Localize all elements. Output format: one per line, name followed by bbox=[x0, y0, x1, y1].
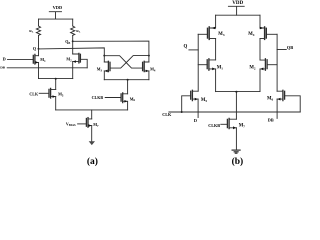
label DB input (a) bbox=[0, 65, 5, 69]
label D (b) bbox=[194, 118, 197, 123]
svg-text:CLKB: CLKB bbox=[208, 123, 220, 128]
svg-text:DB: DB bbox=[268, 117, 274, 122]
transistor M2 (b) mirrored bbox=[249, 59, 267, 71]
svg-text:VDD: VDD bbox=[232, 1, 243, 6]
wire node QB line to cross pair (a) bbox=[73, 41, 149, 56]
wire QB tap (b) bbox=[277, 49, 286, 51]
wire M1 drain to Q (a) bbox=[38, 49, 40, 56]
wire M5 source down (a) bbox=[55, 97, 57, 110]
wire M2 source down (b) bbox=[259, 69, 261, 92]
wire rail3 to M6 drain (a) bbox=[127, 80, 129, 94]
top rail wire (a) bbox=[39, 18, 73, 20]
VDD supply T symbol (b) bbox=[228, 6, 244, 15]
wire M3 source down (a) bbox=[103, 71, 105, 80]
svg-text:M7: M7 bbox=[239, 123, 246, 128]
transistor M1 (b) bbox=[207, 59, 223, 71]
transistor M1 (a) bbox=[33, 54, 46, 64]
transistor M3 (a) mirrored gate right bbox=[97, 61, 110, 72]
source rail M3 M4 (a) bbox=[104, 79, 149, 81]
svg-text:M4: M4 bbox=[248, 32, 255, 37]
svg-text:QB: QB bbox=[287, 45, 293, 50]
transistor M4 (b) PMOS right mirrored bbox=[248, 15, 266, 39]
svg-text:CLK: CLK bbox=[162, 112, 172, 117]
caption (a) bbox=[87, 156, 98, 167]
svg-text:M2: M2 bbox=[249, 66, 256, 71]
wire M1 source down (a) bbox=[38, 62, 40, 78]
svg-text:Q: Q bbox=[183, 45, 187, 50]
tail rail (a) bbox=[56, 109, 128, 111]
svg-text:M1: M1 bbox=[217, 65, 224, 70]
wire M4 source down (a) bbox=[148, 71, 150, 80]
transistor M7 (a) bbox=[86, 118, 99, 129]
wire M1 source down (b) bbox=[215, 69, 217, 92]
svg-text:M3: M3 bbox=[218, 32, 225, 37]
transistor M4 (a) gate left bbox=[143, 61, 156, 72]
wire VBIAS to M7 gate (a) bbox=[78, 123, 87, 125]
svg-text:VDD: VDD bbox=[53, 5, 63, 10]
wire CLKB to M7 gate (b) bbox=[221, 123, 228, 125]
node QB junction dot (a) bbox=[72, 40, 74, 42]
svg-text:CLK: CLK bbox=[29, 91, 39, 96]
transistor M3 (b) PMOS left bbox=[208, 15, 225, 39]
svg-text:M5: M5 bbox=[201, 98, 208, 103]
transistor M5 (b) bbox=[191, 90, 208, 103]
wire DB line (a) bbox=[7, 67, 87, 69]
junction dot rail3 (a) bbox=[127, 79, 129, 81]
svg-text:(b): (b) bbox=[232, 156, 244, 166]
svg-text:CLKB: CLKB bbox=[92, 95, 104, 100]
junction dot rail1 (a) bbox=[55, 78, 57, 80]
resistor RL right (a) bbox=[71, 26, 75, 35]
wire CLK to M5 gate (a) bbox=[39, 92, 49, 94]
VDD supply T symbol (a) bbox=[49, 12, 61, 19]
transistor M7 (b) bbox=[227, 118, 245, 129]
caption (b) bbox=[232, 156, 244, 167]
label Q (a) bbox=[33, 46, 37, 51]
wire M5 source to D stub (b) bbox=[197, 99, 199, 117]
transistor M5 (a) bbox=[49, 88, 64, 98]
svg-text:D: D bbox=[194, 118, 197, 123]
label D input (a) bbox=[3, 57, 6, 62]
wire node Q line to cross pair (a) bbox=[39, 48, 105, 56]
transistor M6 (b) mirrored bbox=[267, 90, 285, 101]
right gate vertical (b) bbox=[276, 34, 278, 91]
left gate vertical (b) bbox=[197, 34, 199, 91]
wire M4 gate to right vertical (b) bbox=[266, 33, 277, 35]
VDD label (a) bbox=[53, 5, 63, 10]
wire M3 gate to left vertical (b) bbox=[198, 33, 207, 35]
node B junction dot (a) bbox=[148, 55, 150, 57]
wire M5 gate to CLK line (b) bbox=[182, 96, 191, 112]
wire left branch top (a) bbox=[38, 19, 40, 26]
label CLKB (a) bbox=[92, 95, 104, 100]
ground arrow (a) bbox=[89, 141, 95, 145]
CLK line (b) bbox=[169, 111, 300, 113]
wire M2 gate to right vertical (b) bbox=[267, 64, 277, 66]
wire M6 source down (a) bbox=[127, 101, 129, 110]
top rail wire (b) bbox=[216, 14, 260, 16]
wire right branch top (a) bbox=[72, 19, 74, 26]
wire rail2 to M7 drain (a) bbox=[91, 110, 93, 119]
wire left resistor to node Q (a) bbox=[38, 35, 40, 48]
junction dot M5 gate on CLK line (b) bbox=[181, 111, 183, 113]
label QB (a) bbox=[65, 39, 70, 45]
wire M2 gate to DB line (a) bbox=[80, 59, 87, 68]
wire M7 source to ground (a) bbox=[91, 126, 93, 142]
resistor RL left (a) bbox=[36, 26, 40, 35]
wire QB column to M2 drain (a) bbox=[72, 41, 74, 54]
wire M6 source to DB stub (b) bbox=[276, 99, 278, 118]
label RL right (a) bbox=[76, 29, 81, 34]
svg-text:VBIAS: VBIAS bbox=[66, 123, 76, 128]
label Q (b) bbox=[183, 45, 187, 50]
svg-text:M6: M6 bbox=[267, 97, 274, 102]
wire B node to M4 drain (a) bbox=[148, 56, 150, 62]
label DB (b) bbox=[268, 117, 274, 122]
label CLKB (b) bbox=[208, 123, 220, 128]
wire CLKB to M6 gate (a) bbox=[105, 97, 120, 99]
transistor M6 (a) bbox=[121, 93, 135, 103]
wire Q tap (b) bbox=[189, 49, 198, 51]
wire M3 drain to M1 drain (b) bbox=[215, 39, 217, 60]
wire M6 gate to CLK line right (b) bbox=[285, 96, 301, 112]
wire right resistor to node QB (a) bbox=[72, 35, 74, 41]
wire M7 source to ground (b) bbox=[235, 128, 237, 150]
VDD label (b) bbox=[232, 1, 243, 6]
node A junction dot (a) bbox=[103, 55, 105, 57]
cross coupling wire B to M3 gate (a) bbox=[110, 56, 149, 69]
svg-text:(a): (a) bbox=[87, 156, 98, 166]
svg-text:D: D bbox=[3, 57, 6, 62]
wire A node to M3 drain (a) bbox=[103, 56, 105, 62]
wire M4 drain to M2 drain (b) bbox=[259, 39, 261, 61]
label VBIAS (a) bbox=[66, 123, 76, 128]
cross coupling wire A to M4 gate (a) bbox=[104, 56, 142, 68]
svg-text:DB: DB bbox=[0, 65, 5, 69]
source rail (b) bbox=[216, 91, 260, 93]
label QB (b) bbox=[287, 45, 293, 50]
wire D to M1 gate (a) bbox=[8, 58, 33, 60]
wire M2 source down (a) bbox=[72, 62, 74, 79]
label CLK (a) bbox=[29, 91, 39, 96]
wire rail to M7 drain crossing CLK line (b) bbox=[235, 92, 237, 119]
wire M1 gate to left vertical (b) bbox=[198, 64, 207, 66]
wire rail1 to M5 drain (a) bbox=[55, 79, 57, 90]
node Q junction dot (a) bbox=[38, 48, 40, 50]
ground symbol (b) bbox=[232, 150, 240, 153]
transistor M2 (a) mirrored bbox=[66, 53, 80, 63]
source rail M1 M2 (a) bbox=[39, 78, 73, 80]
junction dot source rail (b) bbox=[235, 91, 237, 93]
label CLK (b) bbox=[162, 112, 172, 117]
label RL left (a) bbox=[29, 29, 34, 34]
